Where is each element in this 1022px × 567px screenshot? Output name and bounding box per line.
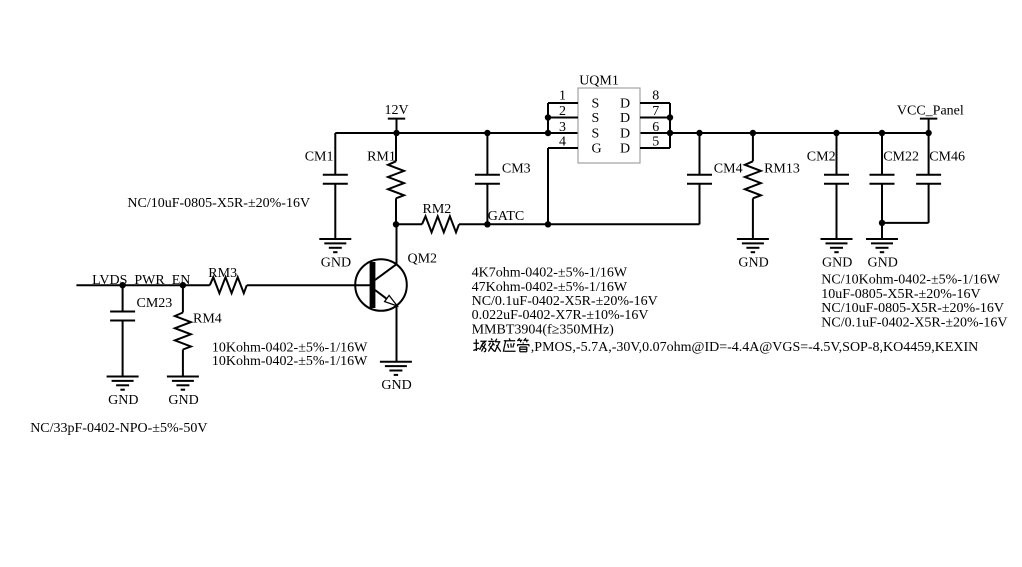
svg-text:CM2: CM2 — [807, 149, 836, 164]
svg-text:VCC_Panel: VCC_Panel — [897, 103, 964, 118]
svg-text:GND: GND — [321, 256, 351, 271]
svg-text:LVDS_PWR_EN: LVDS_PWR_EN — [92, 273, 190, 288]
svg-text:D: D — [620, 96, 630, 111]
svg-text:GND: GND — [381, 378, 411, 393]
svg-text:D: D — [620, 111, 630, 126]
svg-text:4: 4 — [559, 135, 566, 150]
svg-text:S: S — [592, 96, 600, 111]
svg-text:CM46: CM46 — [929, 149, 965, 164]
svg-text:RM2: RM2 — [423, 202, 452, 217]
svg-text:S: S — [592, 126, 600, 141]
svg-text:3: 3 — [559, 120, 566, 135]
svg-text:10uF-0805-X5R-±20%-16V: 10uF-0805-X5R-±20%-16V — [821, 287, 980, 302]
svg-text:NC/0.1uF-0402-X5R-±20%-16V: NC/0.1uF-0402-X5R-±20%-16V — [472, 294, 658, 309]
svg-text:12V: 12V — [385, 103, 409, 118]
svg-text:CM22: CM22 — [883, 149, 919, 164]
svg-text:S: S — [592, 111, 600, 126]
svg-text:GND: GND — [868, 256, 898, 271]
svg-text:GND: GND — [822, 256, 852, 271]
svg-text:NC/0.1uF-0402-X5R-±20%-16V: NC/0.1uF-0402-X5R-±20%-16V — [821, 315, 1007, 330]
svg-text:4K7ohm-0402-±5%-1/16W: 4K7ohm-0402-±5%-1/16W — [472, 266, 628, 281]
svg-text:10Kohm-0402-±5%-1/16W: 10Kohm-0402-±5%-1/16W — [212, 340, 368, 355]
svg-text:CM1: CM1 — [305, 149, 334, 164]
svg-text:6: 6 — [652, 120, 659, 135]
svg-text:CM4: CM4 — [714, 161, 743, 176]
svg-text:NC/10Kohm-0402-±5%-1/16W: NC/10Kohm-0402-±5%-1/16W — [821, 273, 1001, 288]
svg-text:NC/10uF-0805-X5R-±20%-16V: NC/10uF-0805-X5R-±20%-16V — [821, 301, 1004, 316]
svg-text:47Kohm-0402-±5%-1/16W: 47Kohm-0402-±5%-1/16W — [472, 280, 628, 295]
svg-text:D: D — [620, 141, 630, 156]
svg-text:GND: GND — [738, 256, 768, 271]
svg-text:GATC: GATC — [488, 209, 525, 224]
svg-text:QM2: QM2 — [408, 252, 438, 267]
svg-text:D: D — [620, 126, 630, 141]
svg-text:RM4: RM4 — [193, 311, 222, 326]
svg-text:8: 8 — [652, 88, 659, 103]
svg-text:MMBT3904(f≥350MHz): MMBT3904(f≥350MHz) — [472, 322, 615, 337]
svg-text:RM13: RM13 — [764, 161, 800, 176]
svg-text:5: 5 — [652, 135, 659, 150]
svg-text:2: 2 — [559, 104, 566, 119]
svg-text:CM3: CM3 — [502, 161, 531, 176]
svg-text:,PMOS,-5.7A,-30V,0.07ohm@ID=-4: ,PMOS,-5.7A,-30V,0.07ohm@ID=-4.4A@VGS=-4… — [531, 340, 978, 355]
svg-text:NC/33pF-0402-NPO-±5%-50V: NC/33pF-0402-NPO-±5%-50V — [30, 421, 207, 436]
svg-text:UQM1: UQM1 — [579, 73, 619, 88]
svg-text:RM1: RM1 — [367, 149, 396, 164]
svg-text:10Kohm-0402-±5%-1/16W: 10Kohm-0402-±5%-1/16W — [212, 354, 368, 369]
svg-text:GND: GND — [108, 393, 138, 408]
svg-text:RM3: RM3 — [208, 266, 237, 281]
svg-text:CM23: CM23 — [137, 296, 173, 311]
svg-text:G: G — [592, 141, 602, 156]
svg-text:7: 7 — [652, 104, 659, 119]
svg-text:1: 1 — [559, 88, 566, 103]
svg-text:NC/10uF-0805-X5R-±20%-16V: NC/10uF-0805-X5R-±20%-16V — [127, 196, 310, 211]
svg-text:0.022uF-0402-X7R-±10%-16V: 0.022uF-0402-X7R-±10%-16V — [472, 308, 649, 323]
svg-text:GND: GND — [168, 393, 198, 408]
